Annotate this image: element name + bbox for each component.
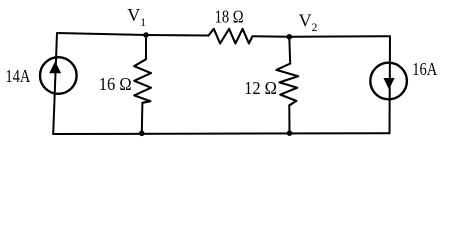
wire 12-ohm top lead <box>288 37 291 64</box>
node junction dot bottom-left (below 16 ohm) <box>139 131 145 137</box>
resistor R 12ohm zigzag <box>276 64 298 106</box>
svg-text:14A: 14A <box>5 66 30 86</box>
node junction dot bottom-right (below 12 ohm) <box>287 130 293 136</box>
wire top-right segment (from 18-ohm resistor to right source) <box>252 35 390 38</box>
wire right vertical <box>389 36 392 133</box>
svg-text:16 Ω: 16 Ω <box>99 74 132 94</box>
svg-text:12 Ω: 12 Ω <box>244 78 277 98</box>
svg-text:V2: V2 <box>299 11 318 34</box>
wire left vertical <box>53 33 57 134</box>
resistor R 16ohm zigzag <box>134 59 151 103</box>
svg-text:18 Ω: 18 Ω <box>215 6 244 26</box>
wire bottom <box>53 132 389 135</box>
current source I2 arrow (points down) <box>383 78 394 90</box>
current source I1 arrow (points up) <box>49 61 61 73</box>
wire 16-ohm bottom lead <box>141 103 144 134</box>
wire 12-ohm bottom lead <box>288 105 290 133</box>
resistor R 18ohm zigzag <box>209 29 253 44</box>
wire 16-ohm top lead <box>145 35 147 59</box>
svg-text:V1: V1 <box>127 5 146 29</box>
wire top-left segment (from left source to 18-ohm resistor) <box>57 33 209 36</box>
node V2 junction dot <box>287 34 293 40</box>
current source I2 circle (16A) <box>370 63 407 100</box>
current source I1 circle (14A) <box>40 57 77 94</box>
svg-text:16A: 16A <box>412 59 437 79</box>
node V1 junction dot <box>143 32 149 38</box>
